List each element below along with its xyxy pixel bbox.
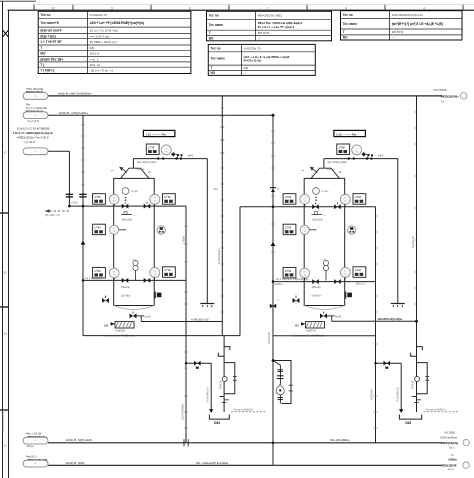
left circuit row-A left square (93, 194, 106, 205)
relief left dashed note (231, 408, 267, 411)
svg-text:?w+?+E D: ?w+?+E D (27, 119, 39, 123)
svg-text:LEd + La+ +F (=5004 RUE)+(=w)+: LEd + La+ +F (=5004 RUE)+(=w)+(w) (90, 21, 144, 25)
V left drain vertical text (180, 236, 185, 420)
border left zone ticks (0, 213, 9, 410)
svg-text:Germany 1 Gw+Ww.Brankla: Germany 1 Gw+Ww.Brankla (294, 335, 326, 338)
border left zone letters (4, 150, 7, 448)
svg-text:1/T98: 1/T98 (164, 196, 171, 199)
svg-text:1/2F=#2222A/72/C/+10: 1/2F=#2222A/72/C/+10 (392, 13, 424, 17)
wire H6b text (378, 317, 403, 321)
left circuit row-A left circle (109, 194, 119, 204)
svg-text:NO: NO (343, 36, 348, 40)
svg-text:left(1) B. (W)(V+E)S: left(1) B. (W)(V+E)S (66, 438, 92, 442)
wire H6 text (191, 318, 209, 322)
svg-text:P Tw G-: P Tw G- (219, 380, 222, 389)
wire H4 left circuit top header (68, 205, 186, 208)
svg-text:1(Bw+E): 1(Bw+E) (312, 287, 321, 289)
right circuit lower box valve (293, 296, 300, 304)
right circuit top instrument circle (352, 145, 362, 155)
svg-text:1/T98: 1/T98 (338, 146, 345, 149)
wire H5b text (275, 278, 366, 286)
relief left main vertical (223, 336, 225, 412)
right circuit top header wire (324, 158, 398, 160)
svg-text:Germany 1 Gw+Ww.Brankla: Germany 1 Gw+Ww.Brankla (103, 335, 135, 338)
svg-text:x+(W) E(V+1)S: x+(W) E(V+1)S (191, 318, 209, 322)
relief right lower jog marks (412, 397, 421, 403)
relief left bypass loop (224, 363, 237, 394)
right circuit drain symbol (391, 302, 405, 307)
svg-text:1 + T+E PT BT: 1 + T+E PT BT (40, 40, 61, 44)
svg-text:Ww+ B(W)+(w)Ew: Ww+ B(W)+(w)Ew (137, 161, 157, 164)
left circuit box bottom text (103, 335, 135, 338)
wire H1 top supply (48, 95, 442, 97)
right circuit top header dots (348, 155, 373, 160)
right circuit vent riser (301, 159, 342, 179)
relief right branch valve (384, 361, 391, 369)
svg-text:left(1) B +(W) (V+E)(Ww)+: left(1) B +(W) (V+E)(Ww)+ (58, 91, 92, 95)
wire H bottom 1 texts (66, 438, 350, 442)
svg-text:L1C — + — Pw: L1C — + — Pw (146, 132, 166, 136)
svg-text:x(W)+1: x(W)+1 (327, 168, 335, 171)
svg-text:1=2022Ib.70: 1=2022Ib.70 (244, 46, 261, 50)
svg-text:+3 4: +3 4 (378, 154, 384, 157)
V center junction marks (270, 187, 280, 444)
left circuit row-B square (93, 224, 106, 235)
svg-text:Tec no: Tec no (211, 46, 221, 50)
right circuit row-B circle (300, 225, 309, 234)
wire H2 second supply (48, 114, 275, 117)
border left vertical drawing number (1, 409, 5, 432)
svg-text:Tw: Tw (441, 102, 444, 104)
left circuit tag box LIC (143, 130, 175, 136)
svg-text:4: 4 (423, 6, 425, 10)
right circuit row-A right square (353, 194, 366, 205)
left circuit row-B right circle (157, 226, 165, 234)
flow arrow on V4 (81, 241, 86, 245)
right circuit row-C right square (353, 267, 366, 278)
table title-block right (341, 11, 463, 40)
relief right D64 label (405, 421, 411, 425)
svg-text:=== 1+2+7 (w): === 1+2+7 (w) (90, 34, 110, 38)
off-page connector right H bottom 2 (441, 454, 469, 471)
V right drain vertical text (370, 389, 374, 400)
svg-text:NU + Akkue(W) E(V+E)E: NU + Akkue(W) E(V+E)E (196, 461, 228, 465)
border left double line (3, 1, 9, 478)
svg-text:(W)Ww: (W)Ww (449, 458, 457, 461)
wire H bottom 2 texts (66, 461, 228, 465)
svg-text:—: — (258, 36, 261, 40)
svg-text:E?A. 1b.: E?A. 1b. (90, 63, 102, 67)
wire V3 drop to node (68, 151, 70, 206)
svg-text:SccM+1: SccM+1 (275, 284, 284, 286)
wire V4 left riser (82, 115, 84, 335)
relief right valve circle (415, 377, 420, 382)
svg-text:Tec no: Tec no (209, 14, 219, 18)
wire V1 long drop from H1 (221, 96, 223, 336)
svg-text:Germany+(W)E(V)+: Germany+(W)E(V)+ (233, 408, 254, 411)
table title-block left (38, 11, 191, 73)
svg-text:T: T (40, 46, 42, 50)
svg-text:+(w)E(V)1: +(w)E(V)1 (115, 330, 126, 332)
svg-text:1/T98: 1/T98 (148, 146, 155, 149)
relief left branch vertical (210, 363, 212, 409)
svg-text:—: — (392, 36, 395, 40)
note text near V1 top (214, 188, 219, 191)
connector ticks on H bottom 1 (184, 439, 188, 446)
svg-text:T: T (211, 66, 213, 70)
svg-text:P/E=2022Ib.70/E1: P/E=2022Ib.70/E1 (258, 14, 283, 18)
svg-text:+=(). 1: +=(). 1 (90, 57, 99, 61)
right circuit drain pipe vertical (397, 159, 399, 302)
note text above H4 (71, 203, 78, 205)
svg-text:(w+1): (w+1) (448, 469, 454, 471)
relief right top jog marks (411, 347, 423, 357)
svg-text:1Gv/LO-L-C E(-4)T(8)E(8): 1Gv/LO-L-C E(-4)T(8)E(8) (17, 126, 50, 130)
right circuit row-C left square (283, 267, 296, 278)
right circuit header under-text (327, 154, 383, 163)
svg-text:LO+L=C +RED(1)E(1)+(w)+E: LO+L=C +RED(1)E(1)+(w)+E (13, 131, 53, 135)
right circuit row-C left circle (300, 268, 310, 278)
pump branch frame (272, 359, 293, 403)
svg-text:+=(+)E B: +=(+)E B (24, 140, 35, 144)
svg-text:1/T98: 1/T98 (285, 270, 292, 273)
svg-text:N+(W)+E1: N+(W)+E1 (412, 236, 415, 248)
svg-text:T: T (343, 30, 345, 34)
right lower box bottom edge (273, 335, 376, 337)
left circuit top header wire (133, 158, 207, 160)
right circuit row-A left circle (300, 194, 310, 204)
right circuit heater element (295, 322, 325, 333)
svg-text:1T1(W): 1T1(W) (321, 191, 329, 193)
left circuit row-C left square (93, 267, 106, 278)
wire V2 long drop right (416, 96, 418, 348)
svg-text:DR NTR: DR NTR (392, 30, 404, 34)
svg-text:Ww+ B(W)+(w)Ew: Ww+ B(W)+(w)Ew (327, 161, 347, 164)
svg-text:C: C (4, 443, 7, 448)
right circuit top instrument square (337, 144, 350, 155)
svg-text:(E)b om and F: (E)b om and F (40, 28, 61, 32)
relief left blowdown arrow (209, 409, 213, 413)
relief left vertical text PTwG (219, 380, 222, 389)
relief left branch vertical text (207, 387, 210, 402)
svg-text:TRU WAUF: TRU WAUF (433, 88, 447, 92)
svg-text:(E)b +1(G): (E)b +1(G) (40, 34, 55, 38)
right circuit box bottom text (294, 335, 326, 338)
svg-text:D64: D64 (214, 421, 220, 425)
svg-text:NU+RUF+E(V+E)S+: NU+RUF+E(V+E)S+ (378, 317, 403, 321)
right circuit top diamond and dots (362, 152, 374, 157)
relief right branch vertical text (397, 387, 400, 402)
wire H3 third supply stub (48, 150, 69, 152)
svg-text:Rw(+): Rw(+) (27, 444, 34, 448)
svg-text:2021-5: 2021-5 (90, 52, 100, 56)
left circuit top instrument square (146, 144, 159, 155)
wire V1 side ticks (220, 127, 224, 153)
relief right branch feed line (374, 362, 401, 364)
svg-text:1+E(W): 1+E(W) (182, 236, 185, 244)
svg-text:D: D (4, 331, 7, 336)
wire H5b right circuit lower header (273, 281, 376, 283)
svg-text:=RED(1)E(1)= ?w+?+E D: =RED(1)E(1)= ?w+?+E D (17, 136, 49, 140)
off-page connector right H1 (433, 88, 467, 104)
svg-text:Ts+B+(W)+1h: Ts+B+(W)+1h (207, 387, 210, 402)
svg-text:1-DN-EP-224-001: 1-DN-EP-224-001 (1, 409, 5, 432)
right circuit lower box side element (346, 292, 352, 299)
wire H6b right box outlet (332, 320, 418, 323)
svg-text:S(?)+(W): S(?)+(W) (370, 389, 374, 400)
left circuit heater element (104, 322, 134, 333)
relief right bottom bracket (399, 415, 421, 420)
valves on H4b right (312, 203, 341, 210)
off-page connector label LO-L-C (13, 126, 53, 154)
wire H bottom 2 (48, 464, 441, 466)
svg-text:L1C — + — Pw: L1C — + — Pw (337, 132, 357, 136)
break marks on V3 V4 (66, 194, 87, 197)
left circuit vessel internals mid marks (121, 212, 136, 222)
right circuit tag box LIC (334, 130, 366, 136)
right circuit row-B square (283, 224, 296, 235)
relief left D64 label (214, 421, 220, 425)
wire H7 cross link bottom (83, 335, 240, 337)
left circuit lower box valve (102, 296, 109, 304)
svg-text:5: 5 (111, 6, 113, 10)
left circuit vessel internals circle pair (132, 259, 138, 280)
off-page connector label bottom-2 (23, 455, 48, 467)
left circuit vessel (114, 178, 155, 309)
left circuit row-C stubs (114, 277, 154, 280)
wire H1 text label (58, 91, 92, 95)
svg-text:(w+B): (w+B) (145, 317, 151, 319)
left circuit top diamond and dots (171, 152, 183, 157)
svg-text:RED(1)E(4)+: RED(1)E(4)+ (441, 95, 459, 99)
wire V1 vertical text (217, 248, 221, 264)
wire V right drain drop (375, 207, 377, 443)
right circuit vessel (304, 178, 345, 309)
svg-text:SccM A B+: SccM A B+ (267, 331, 271, 344)
svg-text:1/T98: 1/T98 (164, 269, 171, 272)
svg-text:DR NTR: DR NTR (258, 31, 270, 35)
right circuit vessel bottom text (312, 295, 322, 298)
svg-text:MO: MO (40, 52, 46, 56)
wire V center main drop (272, 115, 274, 465)
svg-text:1/T98: 1/T98 (94, 227, 101, 230)
left circuit top instrument circle (161, 145, 171, 155)
svg-text:1/T98: 1/T98 (285, 196, 292, 199)
relief left branch feed line (185, 362, 211, 364)
right circuit row-A right circle (340, 194, 350, 204)
relief right branch vertical (400, 363, 402, 409)
svg-text:P Tw G-: P Tw G- (412, 380, 415, 389)
svg-text:1(Bw+E)Ib: 1(Bw+E)Ib (122, 219, 134, 221)
svg-text:1(Bw+E)Ib: 1(Bw+E)Ib (312, 219, 324, 221)
valves on H5b right (312, 279, 341, 284)
left circuit vessel internals top gauge (122, 188, 138, 202)
svg-text:(2) +(W)+ (4): (2) +(W)+ (4) (45, 214, 60, 217)
svg-text:1/T98: 1/T98 (355, 196, 362, 199)
right circuit row-A stubs (305, 204, 345, 206)
border left fold mark X (3, 30, 9, 37)
svg-text:10 Lo + Fo 10-B +(w): 10 Lo + Fo 10-B +(w) (90, 28, 118, 32)
svg-text:Tec name: Tec name (343, 22, 358, 26)
svg-text:Tec name: Tec name (209, 23, 224, 27)
svg-text:1(Bw+E): 1(Bw+E) (121, 287, 130, 289)
left circuit row-C right square (163, 267, 176, 278)
svg-text:8: 8 (345, 6, 347, 10)
svg-text:1A1: 1A1 (104, 325, 109, 328)
left circuit top header dots (157, 155, 182, 160)
table title-block middle-top (207, 11, 332, 41)
pump relief circle (276, 384, 284, 395)
svg-text:E: E (4, 270, 7, 275)
svg-text:x(W)+1: x(W)+1 (137, 168, 145, 171)
svg-text:+(w)E(V)1: +(w)E(V)1 (306, 330, 317, 332)
wire H bottom 1 (48, 442, 442, 444)
off-page connector label TRU VALVE top (23, 87, 48, 99)
svg-text:Tec no: Tec no (343, 13, 353, 17)
svg-text:Tw: Tw (451, 454, 454, 457)
relief left branch valve (194, 361, 201, 369)
svg-text:(Ow+E)+: (Ow+E)+ (121, 295, 131, 298)
border top zone ticks (34, 5, 474, 11)
left circuit row-A right square (163, 194, 176, 205)
off-page connector label bottom-1 (23, 432, 48, 449)
svg-text:Germany+(W)E(V)+: Germany+(W)E(V)+ (426, 408, 447, 411)
svg-text:~@ (=( +T) (b. +1: ~@ (=( +T) (b. +1 (90, 69, 114, 73)
left circuit row-C right circle (150, 267, 160, 277)
wire H5 text (85, 277, 101, 280)
right circuit vessel internals circle pair (323, 259, 329, 280)
texture ticks on verticals (81, 108, 418, 428)
svg-text:T: T (209, 31, 211, 35)
border top zone numbers (51, 6, 425, 10)
svg-text:E(W)+(w)Ww1: E(W)+(w)Ww1 (441, 435, 458, 439)
svg-text:1/T98: 1/T98 (355, 269, 362, 272)
svg-text:NO: NO (209, 36, 214, 40)
svg-text:Tec no: Tec no (40, 13, 50, 17)
pump inner branch (273, 361, 284, 404)
svg-text:NU+(W)+RED+: NU+(W)+RED+ (330, 438, 350, 442)
left circuit row-B link line (117, 227, 126, 230)
svg-text:RED(1)E4E: RED(1)E4E (441, 464, 457, 468)
svg-text:left(1) B. (W)E: left(1) B. (W)E (66, 461, 84, 465)
svg-text:P+ LA+? + LA+?T +(w)+1: P+ LA+? + LA+?T +(w)+1 (258, 25, 295, 29)
wire H4b right circuit top header (240, 206, 376, 208)
left circuit drain pipe vertical (206, 159, 208, 302)
valves on H4 left (122, 202, 151, 209)
relief right bypass loop (417, 363, 430, 394)
wire H2 text label (59, 111, 88, 115)
left circuit drain symbol (200, 302, 214, 307)
left circuit row-B circle (110, 225, 119, 234)
left circuit lower box side element (155, 292, 161, 299)
svg-text:1/T98: 1/T98 (285, 227, 292, 230)
off-page connector label PRV valve (23, 102, 48, 122)
svg-text:DR.: DR. (90, 46, 95, 50)
right circuit row-C stubs (305, 277, 345, 280)
border top line (0, 1, 474, 10)
svg-text:D64: D64 (405, 421, 411, 425)
svg-text:NO: NO (211, 71, 216, 75)
svg-text:P=(?)+?(-1)+: P=(?)+?(-1)+ (244, 58, 262, 62)
svg-text:1T1(W): 1T1(W) (131, 191, 139, 193)
right circuit vessel internals mid marks (312, 212, 327, 222)
svg-text:+1(W): +1(W) (71, 203, 78, 205)
left circuit vessel bottom text (121, 295, 131, 298)
svg-text:T ( F)E=-(.: T ( F)E=-(. (40, 69, 55, 73)
right circuit row-C right circle (340, 267, 350, 277)
svg-text:1A1: 1A1 (295, 325, 300, 328)
relief right blowdown arrow (399, 409, 403, 413)
right circuit vessel internals top gauge (313, 188, 329, 202)
svg-text:1/T98: 1/T98 (94, 270, 101, 273)
right circuit row-B link line (308, 227, 317, 230)
svg-text:10: 10 (51, 6, 55, 10)
wire H5 left circuit lower header (82, 279, 186, 282)
right circuit row-A left square (283, 194, 296, 205)
svg-text:Tw(+): Tw(+) (449, 447, 455, 450)
wire H6 left box outlet (141, 321, 222, 323)
left circuit row-C left circle (109, 268, 119, 278)
svg-text:P=2022Ib.70: P=2022Ib.70 (90, 13, 107, 17)
left circuit header under-text (137, 154, 193, 163)
svg-text:left(1) B. +(W)(V+E)S+: left(1) B. +(W)(V+E)S+ (59, 111, 88, 115)
svg-text:(Ew)G TEv 1B+: (Ew)G TEv 1B+ (40, 57, 63, 61)
svg-text:7: 7 (267, 6, 269, 10)
svg-text:(w/?)E+?(?) (w?)T LE +A(-)E +L: (w/?)E+?(?) (w?)T LE +A(-)E +L(E) (392, 22, 443, 26)
svg-text:NU E(W): NU E(W) (445, 431, 456, 435)
left circuit text under H5 (121, 287, 130, 289)
left circuit vent riser (111, 159, 152, 179)
dashed signal text (45, 214, 60, 217)
svg-text:uv: uv (279, 394, 281, 396)
relief right dashed note (424, 408, 460, 411)
svg-text:6: 6 (189, 6, 191, 10)
off-page connector right H bottom 1 (441, 431, 470, 450)
svg-text:+3 4: +3 4 (188, 154, 194, 157)
relief right main vertical (416, 321, 418, 412)
svg-text:(Ow+E)+: (Ow+E)+ (312, 295, 322, 298)
right circuit bottom outlet valve (320, 312, 341, 322)
left circuit row-A right circle (150, 194, 160, 204)
svg-text:1w1: 1w1 (214, 188, 219, 191)
svg-text:(E)+1 x1: (E)+1 x1 (356, 284, 365, 286)
svg-text:(w+B): (w+B) (335, 317, 341, 319)
relief left valve circle (222, 377, 227, 382)
wire V5 right circuit feed (239, 207, 241, 336)
svg-text:40 PRM + 2229 +(1): 40 PRM + 2229 +(1) (90, 40, 117, 44)
svg-text:RED(1)E(4)(: RED(1)E(4)( (442, 441, 459, 445)
relief left lower jog marks (220, 397, 229, 403)
svg-text:1/T98: 1/T98 (94, 196, 101, 199)
svg-text:Ts+B+(W)+1h: Ts+B+(W)+1h (397, 387, 400, 402)
right circuit row-B right circle (348, 226, 356, 234)
relief right vertical text PTwG (412, 380, 415, 389)
V center vertical text (267, 331, 271, 344)
relief left top jog marks (218, 347, 230, 357)
left circuit bottom outlet valve (130, 312, 151, 322)
relief left bottom bracket (209, 415, 229, 420)
dashed signal arrow left (45, 209, 70, 212)
valves on H5 left (122, 278, 151, 283)
svg-text:Tec name+E: Tec name+E (40, 21, 58, 25)
table title-block middle-bottom (208, 44, 315, 75)
wire V2 vertical text (412, 236, 415, 248)
right circuit text under H5 (312, 287, 321, 289)
svg-text:—: — (244, 71, 247, 75)
svg-text:N+(W)+E(V)+: N+(W)+E(V)+ (217, 248, 221, 264)
left circuit row-A stubs (114, 204, 154, 206)
svg-text:SccM A B(W)+: SccM A B(W)+ (180, 403, 184, 420)
